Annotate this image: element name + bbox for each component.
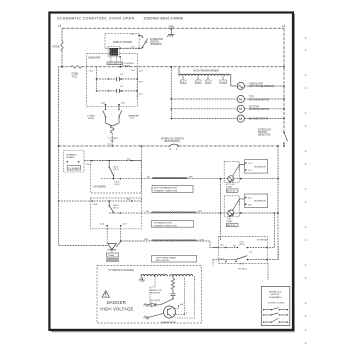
pin J1-A <box>101 101 107 105</box>
svg-text:SCHEMATIC: SCHEMATIC <box>269 296 282 299</box>
transformer primary coil B <box>146 211 221 228</box>
lamp oven light <box>237 82 274 89</box>
wire right edge vertical <box>141 145 143 201</box>
svg-text:BREAKER: BREAKER <box>129 115 140 118</box>
pin J1-B <box>118 102 126 105</box>
capacitor resistor label <box>150 289 162 295</box>
svg-text:TCO: TCO <box>72 75 77 78</box>
svg-text:HV GROUP (2 PLACES): HV GROUP (2 PLACES) <box>108 269 134 272</box>
svg-text:FUSE: FUSE <box>88 118 94 120</box>
svg-text:120V: 120V <box>144 239 149 241</box>
capacitor row R1 <box>96 74 138 81</box>
svg-text:PANEL: PANEL <box>124 64 132 67</box>
warning triangle <box>102 291 109 298</box>
pin CN-A1 <box>131 34 141 36</box>
triac module 1 <box>224 161 244 192</box>
rail 4 partial <box>109 212 151 214</box>
svg-text:TOP: TOP <box>249 97 254 99</box>
svg-text:J1-B: J1-B <box>121 102 126 104</box>
perforation dots right margin <box>305 37 307 344</box>
svg-text:(RLY): (RLY) <box>239 244 245 246</box>
svg-text:(PRI) CIRCUIT: (PRI) CIRCUIT <box>156 260 171 262</box>
svg-text:TRIAC: TRIAC <box>108 254 115 257</box>
thermal cutout OVEN TCO <box>62 66 81 79</box>
wire left bus below fuse <box>61 51 63 67</box>
title text <box>57 17 184 21</box>
svg-text:DOOR CLOSED: DOOR CLOSED <box>268 303 285 305</box>
node junction row2 right <box>283 66 285 68</box>
HV group dashed box <box>97 266 202 324</box>
HV monitor box 1 <box>245 160 268 174</box>
svg-text:TRIAC: TRIAC <box>226 220 233 223</box>
transformer primary coil A <box>147 177 221 193</box>
right bus L2 <box>283 28 285 146</box>
border frame shadow <box>51 14 294 332</box>
svg-text:J2-A: J2-A <box>100 223 105 226</box>
svg-text:MODULE: MODULE <box>227 191 236 193</box>
svg-text:L2: L2 <box>282 24 286 28</box>
svg-text:LV BOARD: LV BOARD <box>69 167 80 170</box>
wire inner vertical right <box>277 146 279 260</box>
pin square J6-1 <box>120 48 140 49</box>
svg-text:MAGNETRON: MAGNETRON <box>162 321 177 324</box>
wire module2 row <box>220 212 279 214</box>
ground HV 1 <box>139 276 145 282</box>
svg-text:GRN: GRN <box>169 27 174 29</box>
svg-text:TCO: TCO <box>110 141 115 143</box>
pin CN-A2 <box>131 47 141 50</box>
triac power <box>106 241 121 262</box>
svg-text:NO: NO <box>233 246 236 248</box>
svg-text:(RLY): (RLY) <box>114 169 119 171</box>
svg-text:COM: COM <box>197 211 202 213</box>
wire square to ribbon <box>111 57 117 62</box>
wire relay to inner vertical <box>267 212 279 259</box>
interlock switch primary <box>142 36 164 48</box>
interlock switch secondary (inline) <box>161 139 184 150</box>
HV wiring internals <box>150 276 174 305</box>
display board dashed box <box>105 34 139 49</box>
motor M3 blower <box>171 115 285 122</box>
ground HV 2 <box>144 303 150 307</box>
node J2-1 on bus <box>119 66 135 72</box>
svg-text:BOARD: BOARD <box>67 156 75 159</box>
svg-text:FUSE: FUSE <box>53 45 60 49</box>
wire to interlock primary <box>139 36 142 49</box>
noise filter box <box>64 151 85 173</box>
svg-text:SCHEMATIC CONDITION: DOOR OPE: SCHEMATIC CONDITION: DOOR OPEN <box>57 17 134 21</box>
svg-text:208/240V 60HZ 3-WIRE: 208/240V 60HZ 3-WIRE <box>144 17 184 21</box>
HV diode <box>149 299 174 307</box>
node junction left bus <box>61 66 63 68</box>
legend switch row 2 <box>263 313 288 316</box>
relay label below <box>238 269 247 271</box>
HV transformer secondary coil <box>141 275 193 277</box>
wire CN-A link <box>84 161 91 166</box>
interlock switch secondary (right) <box>258 129 288 143</box>
magnetron <box>149 276 194 324</box>
svg-text:FILAMENT TRANS (PRI): FILAMENT TRANS (PRI) <box>154 189 178 192</box>
svg-text:(RLY): (RLY) <box>114 207 119 209</box>
svg-text:RY (RLY): RY (RLY) <box>238 269 247 271</box>
wire row3 <box>58 145 279 147</box>
svg-text:M: M <box>239 107 242 111</box>
motor M2 bottom antenna <box>171 105 285 112</box>
svg-text:FILAMENT TRANS (PRI): FILAMENT TRANS (PRI) <box>154 224 178 227</box>
transformer LV (dark square) <box>108 47 120 57</box>
svg-text:DISPLAY BOARD: DISPLAY BOARD <box>113 41 132 44</box>
power relay box <box>213 237 268 266</box>
svg-text:COM: COM <box>188 177 193 179</box>
svg-text:HIGH VOLTAGE: HIGH VOLTAGE <box>100 306 133 311</box>
svg-text:AUTO TRANSFORMER: AUTO TRANSFORMER <box>193 70 219 73</box>
triac module 2 <box>224 196 244 227</box>
relay MG-2 <box>109 201 120 213</box>
HV monitor box 2 <box>245 194 268 208</box>
rail 1 <box>91 158 141 161</box>
svg-text:ANTENNA MOTOR: ANTENNA MOTOR <box>249 108 269 111</box>
rail 2 <box>101 178 152 186</box>
pin square J6-2 <box>120 56 121 67</box>
wire top bus L1 <box>62 27 284 29</box>
wire common rail vertical <box>220 179 222 240</box>
node J1-2 label <box>107 144 112 146</box>
svg-text:ANTENNA MOTOR: ANTENNA MOTOR <box>249 98 269 101</box>
svg-text:TOP POWER TRANS: TOP POWER TRANS <box>156 256 177 259</box>
svg-text:M: M <box>239 117 242 121</box>
node L2 at row3 <box>283 145 285 147</box>
danger high voltage text <box>100 300 133 312</box>
border frame <box>49 13 293 330</box>
svg-text:HV SENSOR: HV SENSOR <box>254 201 266 203</box>
HV control board dashed box <box>91 161 142 229</box>
svg-text:M: M <box>239 97 242 101</box>
svg-text:RESISTOR: RESISTOR <box>150 292 161 294</box>
wire relay box stub down <box>267 264 269 281</box>
staircase wire to triac <box>59 146 107 246</box>
svg-text:(RLY): (RLY) <box>115 184 120 186</box>
ribbon cable connector <box>107 62 135 67</box>
fuse F1 <box>53 41 64 51</box>
node L2 <box>282 24 286 28</box>
capacitor row R2 <box>96 86 138 93</box>
svg-text:(PRIMARY): (PRIMARY) <box>150 43 162 46</box>
svg-text:TOP MAGNETRON: TOP MAGNETRON <box>154 222 173 225</box>
svg-text:HV SENSOR: HV SENSOR <box>254 166 266 168</box>
wire module1 row <box>220 178 279 180</box>
svg-text:BOTTOM: BOTTOM <box>249 106 259 108</box>
svg-text:J1-A: J1-A <box>101 101 106 104</box>
svg-text:KB BOARD: KB BOARD <box>89 56 101 59</box>
svg-text:TCO: TCO <box>130 118 135 120</box>
pin J2-A bottom <box>100 223 108 244</box>
keyboard dashed box <box>87 54 138 107</box>
svg-text:OVEN LIGHT: OVEN LIGHT <box>249 83 264 85</box>
pin J2-B bottom <box>120 224 127 242</box>
node L1 <box>58 24 62 28</box>
svg-text:COM: COM <box>220 82 225 84</box>
svg-text:HV RELAY: HV RELAY <box>258 238 269 241</box>
wire left bus drop <box>61 28 63 41</box>
motor M1 top antenna <box>171 95 285 102</box>
switch mini right <box>118 105 139 122</box>
pin labels CN column <box>89 71 143 96</box>
wire cap box verticals <box>97 67 138 100</box>
svg-text:TRIAC: TRIAC <box>226 186 233 189</box>
svg-text:MODULE: MODULE <box>227 225 236 227</box>
HV capacitor <box>171 290 176 299</box>
wire oven light to L2 bus <box>244 85 285 87</box>
wire left vertical to lower left <box>59 67 63 146</box>
svg-text:HV BOARD: HV BOARD <box>94 186 106 189</box>
switch mini left <box>87 105 106 122</box>
svg-text:CAPACITOR: CAPACITOR <box>150 289 162 292</box>
svg-text:CN-B: CN-B <box>93 204 99 206</box>
svg-text:BOTTOM MAGNETRON: BOTTOM MAGNETRON <box>154 187 177 190</box>
thermal protector TT <box>106 121 120 147</box>
svg-text:L1: L1 <box>58 24 62 28</box>
legend switch row 1 <box>263 308 288 311</box>
feeder vertical from row2 <box>170 66 172 119</box>
transformer primary coil C <box>121 239 219 262</box>
rail 3 <box>58 199 142 206</box>
relay MG-1 <box>109 161 120 179</box>
ground HV 3 <box>144 316 150 320</box>
wire bus row2 <box>81 66 284 68</box>
svg-text:DANGER: DANGER <box>107 300 126 305</box>
ground GRN <box>167 27 174 37</box>
svg-text:HV DIODE: HV DIODE <box>150 300 161 302</box>
auto transformer <box>179 67 237 86</box>
svg-text:BLOWER MOTOR: BLOWER MOTOR <box>249 119 268 121</box>
svg-text:(SECONDARY): (SECONDARY) <box>164 140 180 143</box>
HV resistor <box>171 278 174 290</box>
svg-text:J2-B: J2-B <box>122 224 127 226</box>
legend switch row 3 <box>263 318 288 323</box>
svg-text:(MONITOR): (MONITOR) <box>258 135 271 137</box>
interlock legend box <box>261 287 290 326</box>
